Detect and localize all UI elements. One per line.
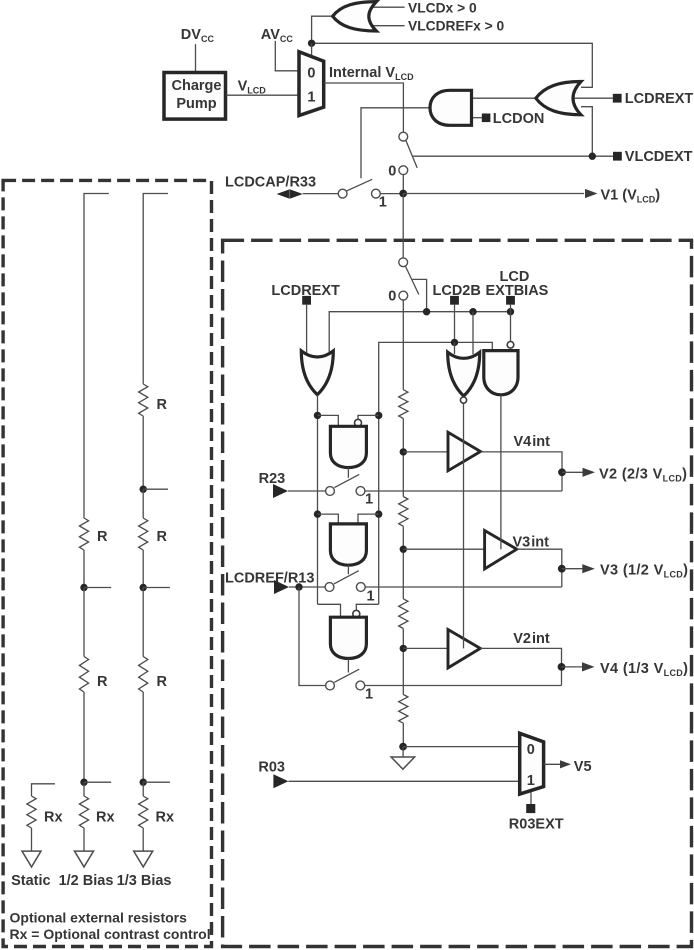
bubble NOR output	[460, 397, 466, 403]
switch S1 blade	[406, 140, 417, 168]
svg-text:Rx: Rx	[96, 809, 115, 825]
junction LCDREF net	[295, 583, 302, 590]
wire VLCDEXT line	[413, 155, 614, 157]
wire AND output to switch control	[361, 108, 430, 179]
svg-text:Charge: Charge	[172, 78, 222, 94]
switch S3 top contact	[399, 258, 408, 267]
svg-text:1: 1	[365, 686, 373, 702]
wire tap to buffer B1	[403, 451, 448, 453]
junction V1 node	[399, 190, 407, 198]
resistor R (1/3 bias top)	[139, 384, 148, 416]
switch S3 position 0 contact	[399, 291, 408, 300]
or-gate U1 (VLCDx>0 + VLCDREFx>0), mirrored	[333, 2, 377, 31]
junction 1/2-bias mid	[80, 584, 87, 591]
junction 1/3-bias lower node	[140, 584, 147, 591]
and-gate U3 (LCDON gating), mirrored	[430, 90, 472, 125]
mux U2 VLCD source select	[299, 52, 324, 116]
switch S6 right contact	[356, 681, 365, 690]
or-gate U5 (charge pump disable), pointing down	[301, 351, 333, 395]
switch S4 right contact	[356, 487, 365, 496]
arrow 1/3 bias terminal	[134, 851, 153, 867]
wire V2 arrow stem	[562, 471, 583, 473]
pin LCDCAP diamond	[277, 189, 303, 198]
switch S6 blade	[334, 669, 359, 682]
pin arrow LCDREF/R13	[274, 580, 289, 594]
switch S2 right contact	[372, 189, 381, 198]
wire select to mux top	[311, 43, 313, 58]
wire internal VLCD output	[324, 83, 403, 132]
junction V5 node	[399, 743, 407, 751]
wire mux select to R03EXT	[530, 793, 532, 805]
bubble AND6 inverted input	[507, 342, 514, 349]
resistor Rx (static)	[27, 796, 36, 828]
resistor Rx (1/3 bias)	[139, 796, 148, 828]
charge pump block	[164, 73, 226, 120]
svg-text:LCDON: LCDON	[493, 111, 545, 127]
junction V4	[558, 663, 566, 671]
svg-text:1: 1	[307, 89, 315, 105]
wire AND input from OR tip	[472, 97, 536, 99]
wire N1 left input hook	[318, 415, 339, 426]
wire AND input LCDON	[472, 117, 482, 119]
wire S2 to V1 node	[380, 193, 403, 195]
wire R23 to switch S4	[288, 490, 326, 492]
switch S4 blade	[334, 474, 359, 487]
wire V3 arrow stem	[562, 568, 583, 570]
junction 1/3-bias upper node	[140, 486, 147, 493]
svg-text:0: 0	[527, 742, 535, 758]
wire S1 to V1 node	[402, 175, 404, 194]
junction V2	[558, 468, 566, 476]
switch S5 left contact	[325, 583, 334, 592]
pin R03EXT square	[526, 804, 535, 813]
pin arrow R23	[273, 484, 288, 498]
svg-text:R: R	[157, 397, 168, 413]
svg-text:1: 1	[379, 195, 387, 211]
svg-text:R03EXT: R03EXT	[509, 817, 564, 833]
wire AVcc to mux input 0	[275, 41, 299, 71]
nand-gate N3, pointing down	[330, 617, 366, 658]
svg-text:VLCDREFx > 0: VLCDREFx > 0	[408, 18, 505, 33]
wire 1/2-bias string	[83, 588, 85, 657]
svg-text:R: R	[157, 674, 168, 690]
junction rail1-N1	[314, 412, 321, 419]
svg-text:V4int: V4int	[514, 434, 551, 450]
wire NOR output down to buffer B3	[463, 403, 465, 648]
wire N3 left input hook	[318, 604, 341, 617]
resistor R (1/2 bias upper)	[79, 518, 88, 550]
wire 1/3-bias string	[142, 489, 144, 518]
svg-text:0: 0	[307, 66, 315, 82]
pin arrow R03	[273, 774, 288, 788]
svg-text:EXTBIAS: EXTBIAS	[486, 283, 549, 299]
resistor R_D3	[399, 599, 408, 629]
wire divider	[402, 629, 404, 695]
wire OR1 input VLCDx	[370, 6, 405, 8]
junction tap V2int	[400, 448, 407, 455]
svg-text:R03: R03	[258, 760, 285, 776]
wire EXTBIAS pin to AND6 inverted input	[510, 305, 512, 341]
switch S4 left contact	[326, 487, 335, 496]
pin LCDREXT square (bias box)	[302, 296, 311, 305]
pin LCDREXT square	[613, 94, 622, 103]
svg-text:V5: V5	[574, 759, 592, 775]
junction bus-EXTBIAS	[507, 308, 514, 315]
junction V3	[558, 565, 566, 573]
wire 1/3-bias string	[142, 782, 144, 796]
wire B2 output to V3	[517, 549, 562, 587]
svg-text:Rx = Optional contrast control: Rx = Optional contrast control	[10, 926, 211, 942]
wire V4 arrow stem	[562, 666, 583, 668]
nor-gate U6, pointing down	[448, 352, 480, 396]
switch S1 top contact	[399, 132, 408, 141]
wire right rail (LCD2B net)	[378, 415, 380, 604]
wire to arrow	[31, 828, 33, 851]
svg-text:V3int: V3int	[513, 534, 550, 550]
wire 1/2-bias string	[83, 782, 85, 796]
svg-text:Optional external resistors: Optional external resistors	[10, 910, 188, 926]
wire N3 right input hook	[356, 604, 378, 611]
switch S5 right contact	[356, 583, 365, 592]
arrow 1/2 bias terminal	[75, 851, 94, 867]
wire S6 to V4 net	[365, 685, 562, 687]
junction rail1-N2	[314, 510, 321, 517]
svg-text:1/2 Bias: 1/2 Bias	[59, 873, 114, 889]
svg-text:1: 1	[365, 491, 373, 507]
buffer B3 (V2int)	[448, 630, 480, 668]
bubble N1 inverted input	[355, 419, 362, 426]
wire V5 output	[544, 763, 561, 765]
arrow V5	[560, 760, 571, 768]
svg-text:R23: R23	[259, 471, 286, 487]
junction LCD2B net	[451, 339, 458, 346]
junction bus-S3	[423, 308, 430, 315]
wire divider bottom	[402, 723, 404, 746]
wire S4 to V2 net	[365, 490, 562, 492]
svg-text:R: R	[97, 529, 108, 545]
wire stub	[143, 781, 170, 783]
wire OR1 input VLCDREFx	[370, 25, 405, 27]
arrow V4	[582, 662, 595, 671]
nand-gate N2, pointing down	[330, 524, 366, 565]
junction 1/3-bias Rx node	[140, 779, 147, 786]
wire S5 to V3 net	[365, 586, 562, 588]
junction VLCDEXT	[589, 153, 596, 160]
pin VLCDEXT square	[613, 152, 622, 161]
svg-text:1: 1	[367, 588, 375, 604]
ground symbol	[402, 747, 404, 757]
wire N2 right input hook	[358, 514, 379, 524]
wire stub	[143, 587, 170, 589]
wire N1 output	[347, 468, 349, 478]
wire B1 output to V2	[481, 452, 563, 491]
switch S3 blade	[406, 267, 419, 295]
switch S1 position 0 contact	[399, 166, 408, 175]
svg-text:R: R	[157, 529, 168, 545]
switch S6 left contact	[326, 681, 335, 690]
wire S3 down to resistor divider	[402, 300, 404, 390]
svg-text:Rx: Rx	[156, 809, 175, 825]
svg-text:Static: Static	[11, 873, 51, 889]
wire LCDREXT pin to OR5 input	[306, 305, 308, 356]
switch S5 blade	[334, 571, 359, 584]
wire LCD2B to NOR left input	[454, 342, 456, 354]
wire B3 output to V4	[480, 648, 561, 685]
pin LCD2B square	[450, 296, 459, 305]
wire LCDCAP to switch S2	[303, 193, 338, 195]
wire N1 right input hook	[358, 415, 379, 420]
junction bus-NOR input	[469, 308, 476, 315]
svg-text:1: 1	[527, 773, 535, 789]
wire 1/3-bias string top hook	[143, 194, 168, 385]
wire LCD2B pin down	[454, 305, 456, 343]
wire VLCD charge pump to mux input 1	[226, 94, 299, 96]
wire V1 output	[403, 193, 584, 195]
svg-text:V2int: V2int	[513, 631, 550, 647]
pin LCD EXTBIAS square	[506, 296, 515, 305]
wire stub	[84, 587, 111, 589]
bubble N3 inverted input	[353, 610, 360, 617]
wire 1/2-bias string	[83, 550, 85, 588]
wire divider	[402, 418, 404, 496]
nand-gate N1, pointing down	[330, 426, 366, 467]
wire divider	[402, 526, 404, 599]
resistor R_D1	[399, 390, 408, 419]
wire stub	[143, 488, 168, 490]
arrow static terminal	[22, 851, 41, 867]
arrow V3	[582, 564, 595, 573]
svg-text:Pump: Pump	[176, 96, 216, 112]
wire N2 output	[347, 565, 349, 574]
internal bias generator dashed box	[223, 240, 692, 946]
wire V1 node down into bias box	[402, 194, 404, 258]
wire left rail (OR5 output)	[317, 395, 319, 604]
wire OR lower input from VLCDEXT	[581, 107, 592, 157]
svg-text:Rx: Rx	[44, 809, 63, 825]
wire LCDREXT to OR back	[574, 97, 613, 99]
svg-text:LCDREXT: LCDREXT	[271, 283, 340, 299]
wire 1/3-bias string	[142, 692, 144, 782]
svg-text:VLCDEXT: VLCDEXT	[625, 149, 693, 165]
resistor R_D2	[399, 497, 408, 527]
wire bus to NOR right input	[472, 312, 474, 354]
arrow V1	[585, 189, 598, 198]
svg-text:LCDCAP/R33: LCDCAP/R33	[225, 174, 316, 190]
wire R03 to mux V5 input 1	[288, 780, 519, 782]
wire to arrow	[83, 828, 85, 851]
wire 1/2-bias string top hook	[84, 194, 109, 519]
wire LCD2B net horizontal	[379, 342, 493, 415]
svg-text:1/3 Bias: 1/3 Bias	[117, 873, 172, 889]
resistor R (1/3 bias middle)	[139, 518, 148, 550]
switch S2 left contact	[338, 189, 347, 198]
junction tap V4int	[400, 645, 407, 652]
wire 1/3-bias string	[142, 588, 144, 657]
resistor Rx (1/2 bias)	[79, 796, 88, 828]
buffer B2 (V3int)	[485, 531, 517, 569]
svg-text:LCD2B: LCD2B	[433, 283, 481, 299]
wire stub	[84, 781, 111, 783]
wire internal VLCD select net horizontal	[312, 43, 593, 87]
resistor R (1/3 bias bottom)	[139, 657, 148, 693]
junction rail2-N2	[375, 510, 382, 517]
junction 1/2-bias Rx node	[80, 779, 87, 786]
wire 1/3-bias string	[142, 550, 144, 588]
switch S2 blade	[346, 179, 372, 191]
wire tap to buffer B2	[403, 548, 484, 550]
wire N2 left input hook	[318, 514, 339, 524]
wire DVcc to charge pump	[195, 44, 197, 72]
wire N3 output	[347, 658, 349, 672]
wire S3 elbow to bias bus	[412, 279, 426, 311]
wire 1/3-bias string	[142, 416, 144, 489]
svg-text:0: 0	[388, 163, 396, 179]
svg-text:VLCDx > 0: VLCDx > 0	[408, 1, 477, 16]
wire static string hook	[32, 784, 55, 796]
pin LCDON square	[482, 114, 491, 123]
and-gate U7, pointing down	[484, 351, 518, 395]
wire AND7 output down to buffer B2	[500, 395, 502, 549]
junction node select net	[308, 40, 315, 47]
wire OR1 output to junction	[312, 16, 333, 43]
or-gate U4 (external VLCD enable), mirrored	[536, 82, 581, 115]
wire ground node to mux V5 input 0	[403, 746, 520, 748]
junction tap V3int	[400, 546, 407, 553]
resistor R (1/2 bias lower)	[79, 657, 88, 693]
wire LCDREF to switch S5	[289, 586, 325, 588]
svg-text:0: 0	[388, 289, 396, 305]
svg-text:LCDREXT: LCDREXT	[625, 91, 694, 107]
svg-text:R: R	[97, 674, 108, 690]
mux U8 V5 select	[520, 733, 544, 794]
wire LCDREF net down to S6	[299, 587, 326, 686]
junction rail2-N1	[375, 412, 382, 419]
arrow V2	[583, 468, 596, 477]
wire bias bus	[329, 312, 510, 355]
resistor R_D4	[399, 695, 408, 724]
wire to arrow	[142, 828, 144, 851]
buffer B1 (V4int)	[448, 432, 481, 470]
wire tap to buffer B3	[403, 647, 448, 649]
optional external resistors dashed box	[3, 180, 211, 946]
wire 1/2-bias string	[83, 692, 85, 782]
